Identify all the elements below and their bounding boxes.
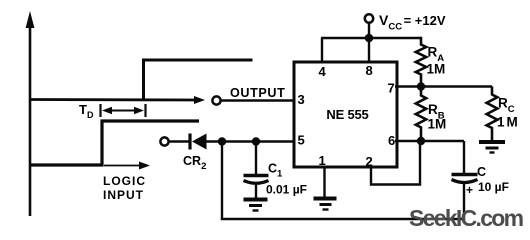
wire: pin 1 to ground	[323, 167, 325, 197]
resistor RA	[416, 37, 426, 87]
wire: bottom rail	[221, 218, 464, 221]
svg-text:8: 8	[366, 63, 373, 78]
svg-text:0.01 µF: 0.01 µF	[266, 183, 307, 197]
diode CR2	[190, 134, 207, 150]
wire: pin 7 to RC branch	[395, 85, 492, 87]
ground for RC	[479, 142, 505, 153]
op IC NE 555 box U1	[294, 62, 397, 167]
TD dimension double arrow	[102, 107, 144, 114]
wire: pin 2 loop to pin 6 node	[371, 142, 420, 185]
svg-text:+: +	[466, 183, 473, 197]
svg-text:7: 7	[388, 81, 395, 96]
svg-text:1: 1	[319, 153, 326, 168]
svg-text:5: 5	[298, 133, 305, 148]
svg-text:OUTPUT: OUTPUT	[230, 86, 285, 100]
OUTPUT terminal circle	[212, 96, 220, 104]
svg-text:NE 555: NE 555	[326, 107, 368, 122]
svg-text:C: C	[477, 165, 486, 179]
wire: pin 6 to capacitor C	[395, 140, 464, 142]
wire: top rail	[321, 37, 421, 39]
output waveform time axis	[30, 96, 205, 104]
junction pin 6 node	[417, 137, 425, 145]
resistor RB	[416, 87, 426, 142]
junction CR2 node	[218, 137, 226, 145]
ground for pin 1	[314, 199, 337, 210]
svg-text:4: 4	[319, 64, 327, 79]
TD right tick	[144, 104, 146, 117]
svg-text:SeekIC.com: SeekIC.com	[409, 205, 524, 231]
svg-text:3: 3	[298, 92, 305, 107]
wire: pin 4 riser	[321, 38, 323, 63]
junction Vcc node	[365, 34, 374, 43]
waveform vertical axis	[26, 11, 35, 216]
logic input time axis arrow	[104, 162, 150, 170]
svg-text:1M: 1M	[427, 62, 446, 77]
wire: terminal to diode	[170, 140, 191, 142]
wire: OUTPUT terminal to pin 3	[222, 99, 296, 101]
junction pin 7 node	[417, 82, 425, 90]
TD left tick	[99, 104, 101, 117]
output waveform trace (step up)	[144, 60, 253, 100]
Vcc terminal circle	[365, 14, 373, 22]
wire: CR2 node down to bottom rail	[221, 142, 223, 221]
junction C1 node	[252, 137, 260, 145]
logic input waveform trace (step up)	[30, 121, 199, 165]
svg-text:LOGIC: LOGIC	[103, 174, 146, 188]
wire: Vcc down through pin 8 riser	[368, 23, 370, 63]
svg-text:1M: 1M	[428, 117, 447, 132]
svg-text:1M: 1M	[497, 115, 518, 130]
ground for C1	[244, 200, 268, 211]
capacitor C (electrolytic)	[452, 141, 478, 220]
svg-text:INPUT: INPUT	[103, 188, 144, 202]
wire: diode to pin 5	[206, 140, 295, 142]
capacitor C1	[244, 142, 269, 198]
resistor RC	[487, 87, 498, 141]
diode CR2 input terminal circle	[160, 137, 168, 145]
svg-text:10 µF: 10 µF	[478, 180, 509, 194]
svg-text:6: 6	[388, 133, 395, 148]
